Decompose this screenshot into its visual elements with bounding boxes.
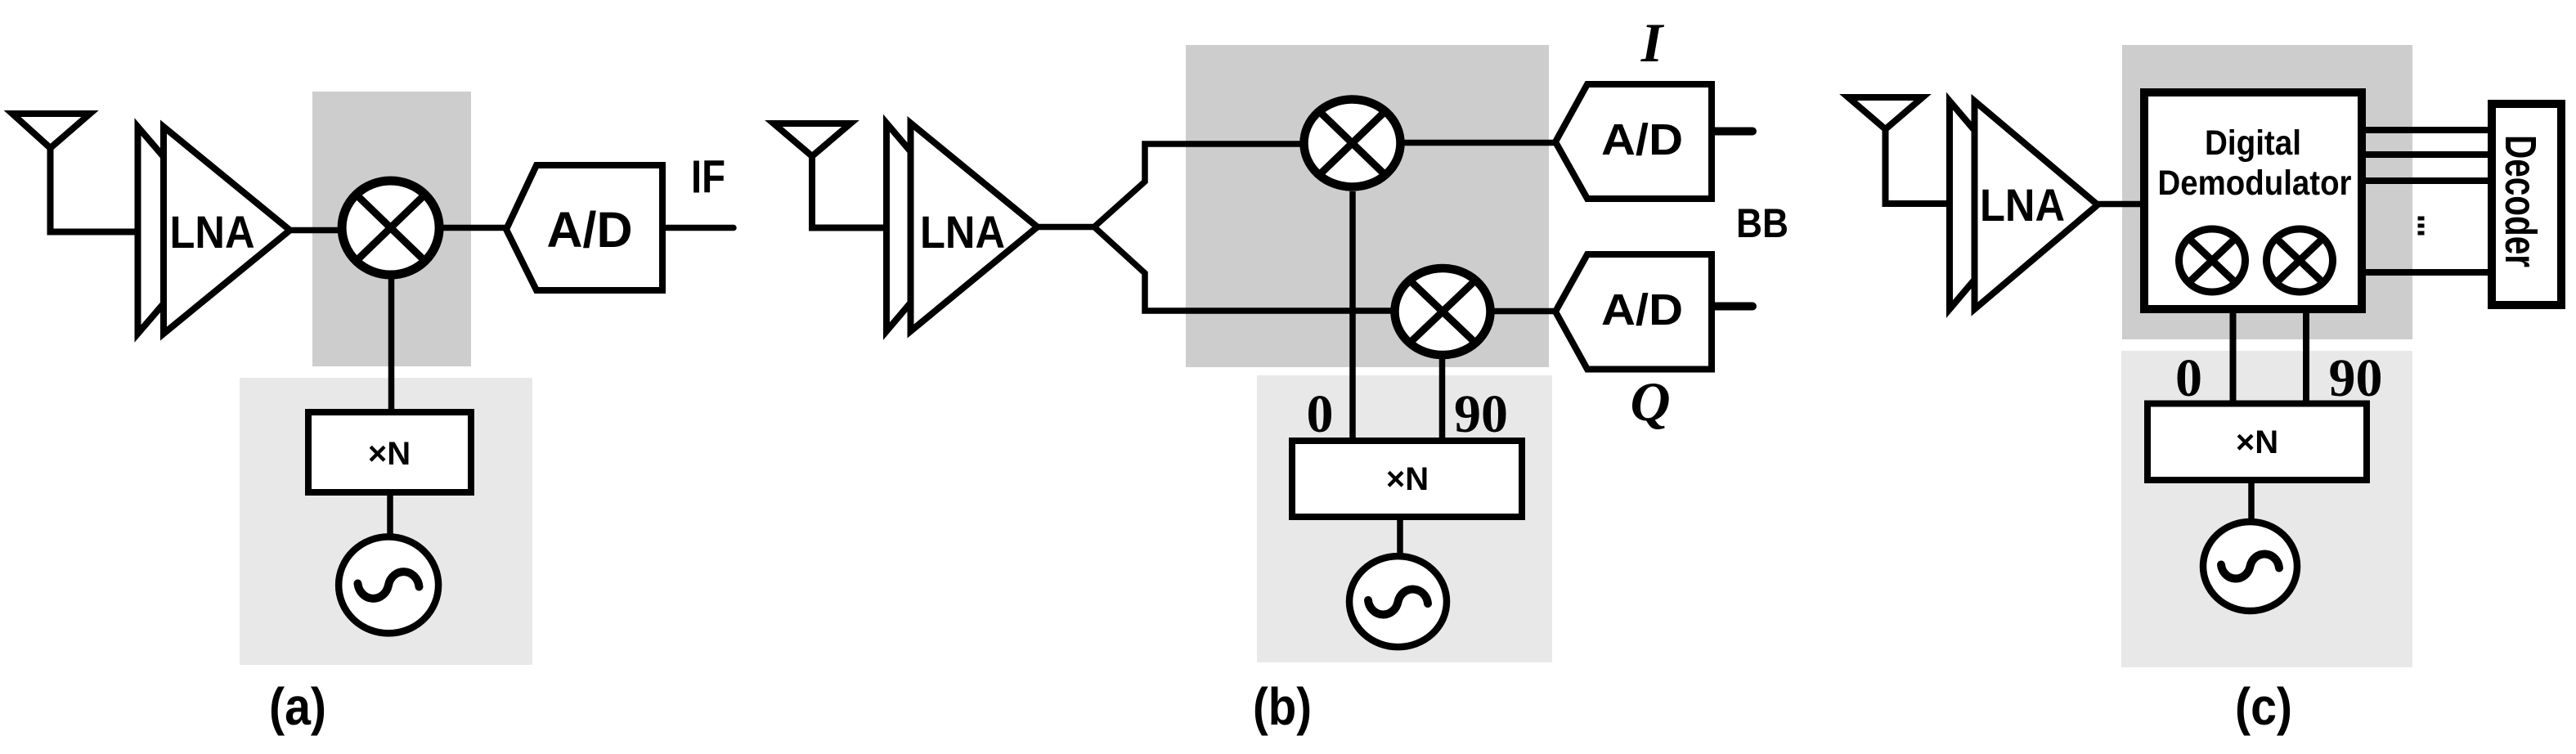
wire LNA to demodulator (c) <box>2094 201 2143 208</box>
LNA U4 (c) <box>1950 101 2098 310</box>
shade LO region (c) <box>2121 351 2412 667</box>
wire xN to oscillator (c) <box>2248 480 2255 525</box>
svg-text:×N: ×N <box>2236 424 2278 460</box>
oscillator OSC (c) <box>2203 522 2297 611</box>
svg-text:Digital: Digital <box>2205 123 2301 163</box>
wire xN to oscillator (b) <box>1397 517 1403 556</box>
wire xN to oscillator (a) <box>387 492 393 536</box>
LO multiplier xN (a) <box>308 412 471 492</box>
svg-text:BB: BB <box>1736 200 1788 246</box>
svg-text:Demodulator: Demodulator <box>2158 164 2352 203</box>
demod mixer 2 (c) <box>2267 229 2333 292</box>
svg-text:LNA: LNA <box>170 206 255 258</box>
A/D converter I (b) <box>1555 84 1712 199</box>
svg-text:LNA: LNA <box>920 206 1005 258</box>
mixer Q M3 (b) <box>1395 268 1491 355</box>
wire mixer I to A/D I (b) <box>1403 140 1557 146</box>
svg-text:A/D: A/D <box>547 202 633 258</box>
wire LNA to splitter (b) <box>1034 224 1095 231</box>
svg-text:×N: ×N <box>368 436 411 472</box>
shade LO region (b) <box>1257 375 1552 662</box>
vertical ellipsis dots (c) <box>2418 217 2425 236</box>
wire LNA to mixer (a) <box>286 227 342 234</box>
oscillator OSC (a) <box>339 536 438 633</box>
IF output wire (a) <box>662 225 734 231</box>
bus wire 4 demod to decoder (c) <box>2366 269 2489 276</box>
decoder block (c) <box>2492 104 2561 305</box>
svg-text:×N: ×N <box>1386 461 1429 497</box>
I output stub (b) <box>1713 128 1752 136</box>
antenna ANT (b) <box>774 123 887 228</box>
svg-text:(b): (b) <box>1253 677 1312 736</box>
bus wire 1 demod to decoder (c) <box>2366 127 2489 133</box>
shade RF mixer region (a) <box>312 92 471 366</box>
svg-text:IF: IF <box>691 151 725 204</box>
LO multiplier xN (b) <box>1292 441 1522 517</box>
shade demodulator region (c) <box>2122 45 2412 339</box>
svg-text:A/D: A/D <box>1601 115 1683 164</box>
svg-text:0: 0 <box>2175 348 2202 408</box>
svg-text:I: I <box>1640 11 1665 74</box>
svg-text:(c): (c) <box>2235 677 2292 736</box>
splitter top branch wire (b) <box>1094 144 1302 227</box>
antenna ANT (a) <box>12 114 139 232</box>
digital demodulator block (c) <box>2144 92 2362 309</box>
wire mixer Q to A/D Q (b) <box>1494 308 1557 315</box>
antenna ANT (c) <box>1848 97 1950 204</box>
LNA U1 (a) <box>138 127 290 334</box>
A/D converter Q (b) <box>1555 254 1712 370</box>
svg-text:Q: Q <box>1630 370 1670 433</box>
mixer I M2 (b) <box>1304 100 1401 187</box>
svg-text:LNA: LNA <box>1980 179 2065 231</box>
svg-text:0: 0 <box>1307 384 1334 444</box>
wire mixer to xN (a) <box>388 276 395 414</box>
wire mixer to A/D (a) <box>442 225 509 231</box>
bus wire 3 demod to decoder (c) <box>2366 177 2489 184</box>
LO multiplier xN (c) <box>2147 404 2367 481</box>
splitter bottom branch wire (b) <box>1094 227 1392 312</box>
wire mixer Q down to xN (b) <box>1439 357 1446 442</box>
wire demod to xN right (c) <box>2303 313 2309 405</box>
svg-text:A/D: A/D <box>1601 285 1683 334</box>
shade LO region (a) <box>240 378 532 665</box>
wire demod to xN left (c) <box>2230 313 2237 405</box>
Q output stub (b) <box>1713 303 1752 311</box>
mixer M1 (a) <box>342 181 439 275</box>
oscillator OSC (b) <box>1349 556 1447 647</box>
svg-text:90: 90 <box>2329 348 2383 408</box>
A/D converter U2 (a) <box>506 165 662 290</box>
wire mixer I down to xN (b) <box>1349 191 1356 442</box>
svg-text:(a): (a) <box>269 677 326 736</box>
svg-text:Decoder: Decoder <box>2496 135 2545 267</box>
bus wire 2 demod to decoder (c) <box>2366 151 2489 158</box>
svg-text:90: 90 <box>1454 384 1508 444</box>
LNA U3 (b) <box>886 123 1038 332</box>
demod mixer 1 (c) <box>2179 229 2246 292</box>
shade RF mixer region (b) <box>1186 45 1549 367</box>
